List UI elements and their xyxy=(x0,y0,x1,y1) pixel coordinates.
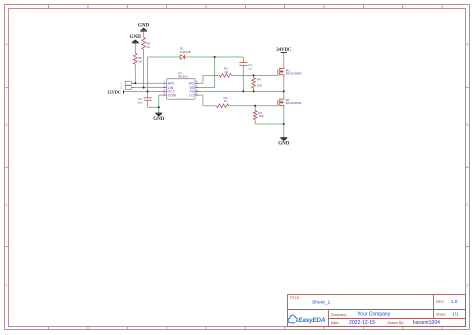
svg-text:R4: R4 xyxy=(257,78,261,82)
svg-text:Sheet_1: Sheet_1 xyxy=(312,300,331,306)
svg-text:12VDC: 12VDC xyxy=(107,90,121,95)
svg-text:Sheet:: Sheet: xyxy=(436,313,446,317)
svg-text:GND: GND xyxy=(278,142,290,147)
svg-text:10u: 10u xyxy=(138,100,143,104)
svg-text:1u: 1u xyxy=(248,66,252,70)
svg-text:COM: COM xyxy=(168,93,176,97)
svg-text:10K: 10K xyxy=(258,114,264,118)
svg-text:GND: GND xyxy=(138,23,150,28)
svg-text:Your Company: Your Company xyxy=(357,312,390,318)
svg-text:1.0: 1.0 xyxy=(451,299,458,305)
svg-text:GND: GND xyxy=(130,35,142,40)
svg-text:haramt1004: haramt1004 xyxy=(413,320,440,326)
svg-text:IR2101: IR2101 xyxy=(178,75,188,79)
svg-text:10: 10 xyxy=(224,99,228,103)
svg-text:IRF3205PBF: IRF3205PBF xyxy=(286,101,302,105)
svg-text:Company:: Company: xyxy=(331,313,347,317)
svg-text:1N4148: 1N4148 xyxy=(180,50,191,54)
svg-text:Date:: Date: xyxy=(331,321,340,325)
svg-text:EasyEDA: EasyEDA xyxy=(298,317,325,324)
svg-text:GND: GND xyxy=(153,117,165,122)
svg-text:LO: LO xyxy=(189,93,194,97)
svg-text:1/1: 1/1 xyxy=(452,312,459,317)
svg-text:Drawn By:: Drawn By: xyxy=(388,321,405,325)
svg-text:2022-12-15: 2022-12-15 xyxy=(349,320,375,326)
svg-text:10K: 10K xyxy=(257,83,263,87)
svg-text:IRF3205PBF: IRF3205PBF xyxy=(286,71,302,75)
svg-text:TITLE:: TITLE: xyxy=(290,296,301,300)
svg-text:REV:: REV: xyxy=(436,300,444,304)
svg-text:10: 10 xyxy=(224,70,228,74)
